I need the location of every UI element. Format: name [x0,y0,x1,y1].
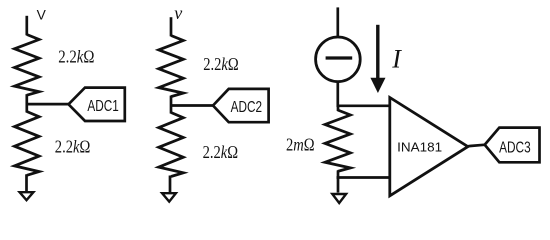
current direction arrow [376,25,379,80]
resistor R2 2.2k lower-left [15,112,40,176]
wire node to ADC1 tag [27,103,70,106]
ground middle divider [162,193,176,201]
wire node to ADC2 tag [171,104,214,107]
svg-text:ADC3: ADC3 [499,140,531,157]
wire amplifier output to ADC3 tag [467,145,486,147]
svg-text:v: v [174,3,182,23]
ADC2 tag [213,89,269,122]
wire R2 to ground [25,174,28,191]
shunt resistor 2mOhm [337,106,340,111]
svg-text:ADC2: ADC2 [231,99,262,116]
ground shunt [332,194,346,203]
wire node B to ground [337,178,340,193]
ground left divider [20,192,34,200]
resistor R4 2.2k lower-middle [159,113,184,177]
svg-text:2.2kΩ: 2.2kΩ [203,54,239,74]
current source I1 [316,37,361,82]
wire node B to amplifier input bottom [337,176,390,179]
svg-text:V: V [37,8,47,23]
wire current source to node A [336,81,339,107]
svg-text:2.2kΩ: 2.2kΩ [58,47,94,67]
wire R4 to ground [169,176,172,193]
wire top lead into current source [336,7,339,37]
svg-text:ADC1: ADC1 [87,98,118,115]
svg-text:I: I [391,45,402,74]
wire V to R1 [25,16,28,36]
resistor R3 2.2k upper-middle [159,36,184,97]
svg-text:2mΩ: 2mΩ [286,135,315,155]
svg-text:INA181: INA181 [397,139,442,154]
ADC3 tag [485,128,540,163]
wire node A to amplifier input top [337,104,390,107]
svg-text:2.2kΩ: 2.2kΩ [203,142,239,162]
op-amp U1 INA181 [390,98,468,196]
wire R3 to R4 through middle node [170,96,173,114]
ADC1 tag [69,88,125,121]
svg-text:2.2kΩ: 2.2kΩ [55,137,91,157]
wire R1 to R2 through middle node [25,94,28,112]
resistor R1 2.2k upper-left [15,35,40,96]
wire v to R3 [170,17,173,36]
